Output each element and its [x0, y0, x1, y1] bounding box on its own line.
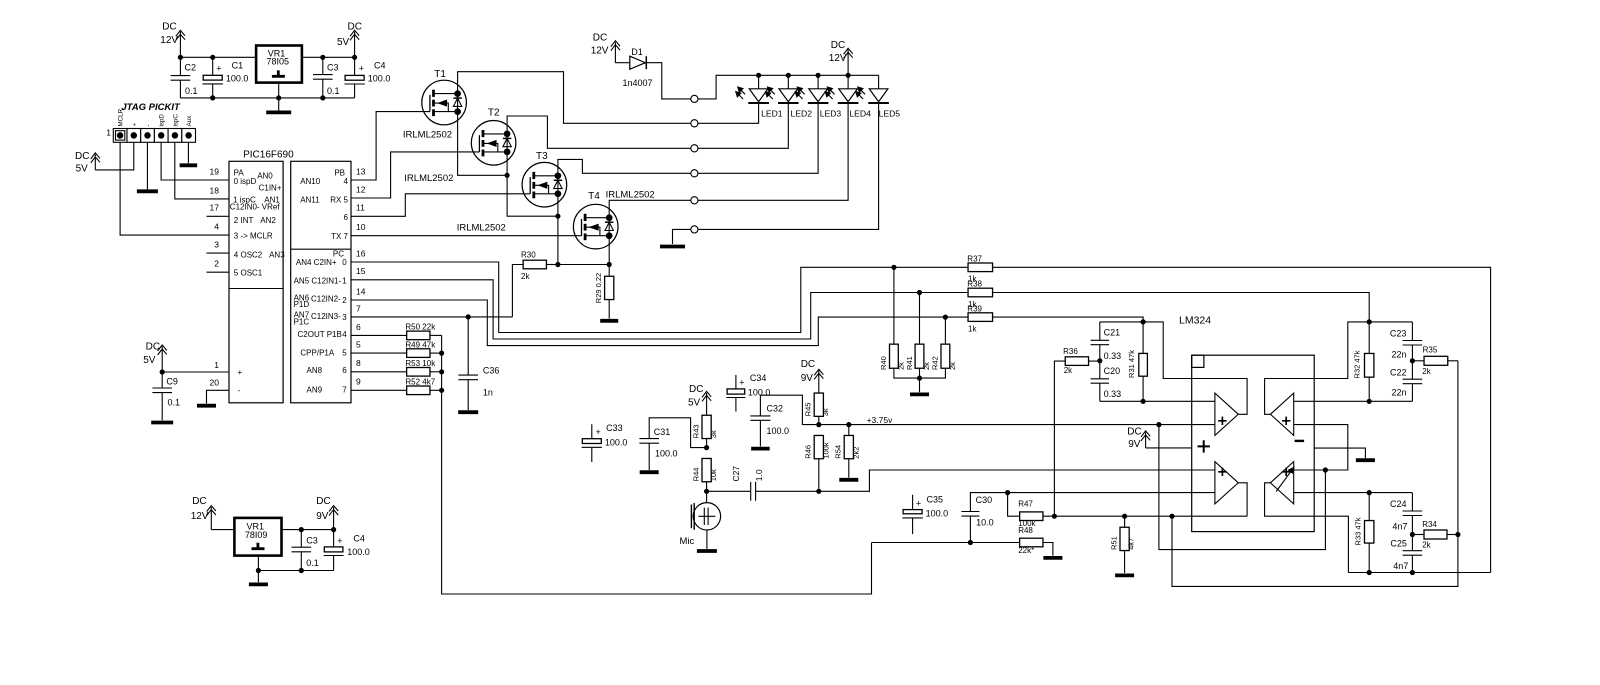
svg-text:17: 17 [210, 203, 220, 213]
wire opamp B input top [1294, 400, 1370, 402]
power symbol DC 9V mic arrow [814, 369, 823, 393]
wire DC5V to PIC pin1 [162, 371, 229, 373]
wire C35 bottom lead [912, 518, 914, 534]
wire C24 bottom lead [1411, 516, 1413, 535]
op-amp U2C triangle [1215, 462, 1238, 504]
wire R49 right lead [430, 352, 442, 354]
svg-text:C12IN2-: C12IN2- [311, 295, 341, 304]
resistor R48 22k [1020, 538, 1043, 547]
node C30 bottom junction [968, 540, 973, 545]
wire C23 bottom lead [1411, 345, 1413, 361]
wire LED5 anode lead [878, 75, 880, 89]
IC U1 right box divider [291, 248, 351, 250]
connector pad 2 [691, 120, 698, 127]
node C20 C21 junction [1097, 358, 1102, 363]
wire C27 to R46 node [756, 490, 819, 492]
power symbol DC 5V header arrow [91, 153, 100, 170]
svg-text:20: 20 [210, 378, 220, 388]
svg-text:1.0: 1.0 [754, 469, 764, 481]
svg-text:2 INT: 2 INT [234, 216, 254, 225]
resistor R46 100k [814, 435, 823, 458]
svg-text:2k: 2k [922, 362, 931, 370]
resistor R43 3k [702, 415, 711, 438]
node VR2 rail C3 [299, 568, 304, 573]
svg-text:9V: 9V [316, 511, 329, 522]
wire LED anode lead x848 [847, 75, 849, 89]
svg-text:+: + [216, 64, 221, 74]
resistor R37 1k [968, 263, 993, 272]
svg-text:R44: R44 [692, 468, 701, 482]
connector pad 3 [691, 145, 698, 152]
svg-text:18: 18 [210, 185, 220, 195]
svg-text:15: 15 [356, 266, 366, 276]
wire C24 top lead [1411, 493, 1413, 511]
ground below C9 [151, 421, 173, 425]
svg-text:R37: R37 [967, 255, 982, 264]
LED3 diode [795, 87, 828, 103]
wire pin7 row to R30 [351, 316, 512, 318]
svg-text:22n: 22n [1392, 350, 1407, 360]
node T4 source junction [607, 262, 612, 267]
op-amp U2D arrow [1276, 467, 1294, 491]
svg-text:5 OSC1: 5 OSC1 [234, 268, 263, 277]
ground pin20 [197, 404, 216, 408]
wire mic signal to opamp3 [819, 470, 1215, 491]
svg-text:100.0: 100.0 [767, 426, 790, 436]
wire D1 to pad1 [646, 63, 690, 99]
svg-text:0.1: 0.1 [327, 86, 340, 96]
wire R29 bottom lead [608, 300, 610, 319]
svg-text:LED4: LED4 [849, 109, 871, 119]
LED4 diode [825, 87, 858, 103]
svg-text:MCLR: MCLR [118, 108, 125, 126]
node output bus junction [1169, 514, 1174, 519]
transistor T1 IRLML2502 [422, 80, 467, 125]
svg-text:AN9: AN9 [307, 386, 323, 395]
svg-text:IRLML2502: IRLML2502 [403, 130, 452, 141]
wire R50 right lead [430, 334, 442, 336]
svg-text:R38: R38 [967, 280, 982, 289]
node bottom rail C25 [1410, 570, 1415, 575]
wire R35 left lead [1412, 360, 1424, 362]
wire R34 left lead [1412, 534, 1424, 536]
svg-text:5V: 5V [143, 355, 156, 366]
wire header ispC to PIC pin18 [175, 142, 229, 199]
wire C1 bottom lead [212, 84, 214, 98]
power symbol DC 9V opamp arrow [1141, 431, 1150, 448]
svg-text:R52 4k7: R52 4k7 [405, 378, 435, 387]
node R41 top junction [917, 290, 922, 295]
svg-text:IRLML2502: IRLML2502 [404, 173, 453, 184]
wire C36 bottom lead [467, 380, 469, 410]
wire C32 bottom lead [759, 421, 761, 447]
svg-text:0.33: 0.33 [1104, 351, 1122, 361]
svg-text:R51: R51 [1109, 536, 1118, 550]
wire LED5 cathode to pad6 [698, 103, 879, 229]
wire PIC pin2 stub [207, 271, 230, 273]
wire C4b bottom lead [333, 556, 335, 571]
svg-text:AN4 C2IN+: AN4 C2IN+ [296, 258, 337, 267]
svg-text:T2: T2 [488, 107, 500, 118]
svg-text:Aux: Aux [186, 115, 193, 127]
svg-text:P1C: P1C [294, 317, 310, 326]
LED1 diode [736, 87, 769, 103]
capacitor C30 [961, 512, 979, 517]
node LED rail junction x788 [786, 73, 791, 78]
resistor R42 2k [941, 344, 950, 368]
wire resistor rail to bottom bus [442, 335, 872, 594]
power symbol DC 12V supply 1 arrow [176, 30, 185, 57]
svg-text:1: 1 [106, 128, 111, 138]
svg-text:C12IN0- VRef: C12IN0- VRef [230, 202, 281, 211]
wire C4 top lead [354, 57, 356, 75]
wire C33 top lead [591, 424, 593, 439]
power symbol DC 5V pin1 arrow [158, 345, 167, 372]
svg-text:11: 11 [356, 203, 365, 213]
ground header minus [137, 189, 158, 193]
capacitor C1 [203, 75, 223, 84]
svg-text:LED3: LED3 [820, 109, 842, 119]
ground below R41 [910, 392, 929, 396]
wire bottom signal line4 [872, 542, 1020, 544]
svg-text:+: + [739, 378, 744, 388]
svg-text:6: 6 [356, 322, 361, 332]
capacitor C36 [458, 375, 478, 380]
capacitor C2 [171, 76, 191, 81]
svg-text:PIC16F690: PIC16F690 [243, 150, 294, 161]
node R43 R44 junction [704, 445, 709, 450]
wire R32 bottom lead [1368, 377, 1370, 401]
wire R48 right to ground [1043, 543, 1053, 556]
wire output rail R35 R34 [1172, 361, 1458, 587]
wire 3.75v wrap around [1159, 425, 1326, 550]
svg-text:2: 2 [342, 296, 347, 305]
svg-text:22k*: 22k* [1018, 546, 1034, 555]
svg-text:9: 9 [356, 377, 361, 387]
svg-text:0.1: 0.1 [185, 86, 198, 96]
wire opamp D input bottom [1294, 492, 1370, 494]
node mic junction [704, 489, 709, 494]
capacitor C32 [750, 416, 770, 420]
wire R47 left link [1008, 493, 1020, 517]
wire 3.75v reference line [819, 424, 1215, 426]
node rail R53 [439, 369, 444, 374]
svg-text:C4: C4 [353, 533, 365, 543]
resistor R29 0.22 [605, 276, 614, 299]
wire mic out to C27 [707, 490, 750, 492]
IC U1 PIC16F690 left box [229, 161, 283, 402]
node R36 bottom junction [1052, 514, 1057, 519]
svg-text:AN8: AN8 [307, 366, 323, 375]
node VR2 gnd rail [256, 568, 261, 573]
svg-text:78I05: 78I05 [267, 57, 290, 67]
node R45 R46 junction [816, 422, 821, 427]
node VR2 out C4 DC9V [331, 527, 336, 532]
node rail R52 [439, 388, 444, 393]
wire C21 top link [1100, 321, 1143, 323]
svg-text:5V: 5V [688, 398, 701, 409]
svg-text:+: + [596, 427, 601, 437]
node LED rail junction x848 [846, 73, 851, 78]
node bottom rail VR1 gnd [276, 95, 281, 100]
svg-text:0.33: 0.33 [1104, 389, 1122, 399]
svg-text:T4: T4 [588, 191, 600, 202]
node R51 top junction [1122, 514, 1127, 519]
node source rail junction [555, 214, 560, 219]
power symbol DC 12V vr2 arrow [207, 506, 216, 530]
node R31 top junction [1141, 319, 1146, 324]
diode D1 1n4007 [630, 56, 647, 69]
svg-text:R46: R46 [804, 445, 813, 459]
svg-text:R42: R42 [931, 356, 940, 370]
wire T1 drain to LED row2 [458, 72, 691, 124]
wire R33 top lead [1368, 493, 1370, 521]
wire LED anode lead x818 [817, 75, 819, 89]
svg-text:C1: C1 [232, 61, 244, 71]
connector pad 6 [691, 226, 698, 233]
svg-text:DC: DC [1127, 426, 1141, 437]
svg-text:6: 6 [344, 213, 349, 222]
node rail C4 DC5V [352, 55, 357, 60]
wire bottom rail right [1348, 572, 1490, 574]
label V+ big plus [1198, 440, 1210, 452]
wire pin5 to R49 [351, 352, 407, 354]
wire mic bottom lead [706, 530, 708, 549]
node T1-T2 source junction [505, 173, 510, 178]
svg-text:LED5: LED5 [879, 109, 901, 119]
svg-text:IRLML2502: IRLML2502 [606, 190, 655, 201]
svg-text:5V: 5V [76, 164, 89, 175]
svg-text:DC: DC [593, 32, 607, 43]
resistor R41 2k [915, 344, 924, 368]
wire R39 to R31 node [993, 317, 1144, 322]
wire R46 bottom lead [818, 459, 820, 491]
svg-text:9V: 9V [801, 373, 814, 384]
wire C3 bottom lead [322, 79, 324, 98]
wire C22 top lead [1411, 361, 1413, 379]
wire V+ supply [1146, 447, 1192, 449]
wire pad6 to ground [673, 229, 691, 244]
wire C32 link to R45 node [760, 395, 818, 424]
wire opamp A input top [1100, 400, 1215, 402]
capacitor C22 [1403, 379, 1423, 384]
wire R38 to node A [993, 293, 1370, 322]
wire LED2 cathode to pad3 [698, 103, 788, 148]
svg-text:2: 2 [214, 259, 219, 269]
wire R40 top lead [893, 267, 895, 344]
wire pin16 bus to R37 [351, 262, 968, 333]
resistor R52 4k7 [407, 386, 430, 395]
wire C33 bottom lead [591, 447, 593, 462]
svg-text:C27: C27 [731, 466, 741, 482]
wire R36 right lead [1089, 360, 1100, 362]
wire opamp3 lower input line [1008, 492, 1215, 494]
capacitor C4 top section [344, 75, 364, 84]
svg-text:1: 1 [214, 360, 219, 370]
wire LED1 cathode to pad2 [698, 103, 759, 123]
wire pin15 bus to R38 [351, 280, 968, 339]
svg-text:T1: T1 [434, 69, 446, 80]
svg-text:13: 13 [356, 166, 366, 176]
svg-text:5V: 5V [337, 37, 350, 48]
wire R37 long line [993, 267, 1491, 572]
wire R32 top lead [1368, 322, 1370, 354]
transistor T3 IRLML2502 [522, 162, 567, 207]
ground header Aux [180, 163, 198, 167]
connector JTAG PICKIT header [113, 129, 195, 143]
capacitor C3 top section [313, 75, 333, 80]
svg-text:DC: DC [192, 496, 206, 507]
node 3.75v line junction [1156, 422, 1161, 427]
wire C36 top lead [467, 317, 469, 375]
capacitor C9 [152, 388, 172, 393]
wire C34 bottom lead [735, 398, 737, 412]
node R34 rail junction [1455, 532, 1460, 537]
capacitor C20 [1091, 379, 1110, 383]
resistor R30 2k [523, 260, 546, 269]
LED5 diode [856, 87, 889, 103]
svg-text:C25: C25 [1390, 539, 1407, 549]
node bottom rail C3 [320, 95, 325, 100]
resistor R53 10k [407, 368, 430, 377]
wire VR1 ground lead [278, 83, 280, 111]
IC U1 left box divider [229, 288, 283, 290]
wire R52 right lead [430, 389, 442, 391]
wire top rail left [180, 56, 256, 58]
node C24 C25 junction [1410, 532, 1415, 537]
svg-text:DC: DC [831, 40, 845, 51]
wire C3b top lead [300, 530, 302, 548]
svg-text:C21: C21 [1104, 328, 1121, 338]
node VR2 out C3 [299, 527, 304, 532]
svg-text:R53 10k: R53 10k [405, 359, 436, 368]
capacitor C27 [751, 482, 756, 501]
svg-text:C1IN+: C1IN+ [259, 184, 282, 193]
svg-text:+: + [131, 123, 138, 127]
transistor T4 IRLML2502 [573, 204, 618, 249]
node rail R49 [439, 351, 444, 356]
resistor R45 3k [814, 393, 823, 416]
svg-text:R40: R40 [879, 356, 888, 370]
node LED rail junction x758 [756, 73, 761, 78]
node C22 C23 junction [1410, 358, 1415, 363]
svg-text:1k: 1k [968, 325, 977, 334]
node bottom rail C1 [210, 95, 215, 100]
wire R30 left lead [512, 265, 523, 317]
svg-text:C24: C24 [1390, 499, 1407, 509]
svg-text:8: 8 [356, 358, 361, 368]
wire PIC pin20 to ground [207, 390, 230, 403]
wire node A to C23 [1369, 321, 1412, 323]
svg-text:R49 47k: R49 47k [405, 340, 436, 349]
resistor R31 47k [1139, 353, 1148, 376]
resistor R39 1k [968, 313, 993, 322]
node R42 top junction [943, 315, 948, 320]
wire opamp B output [1265, 322, 1370, 414]
svg-text:100.0: 100.0 [368, 74, 391, 84]
svg-text:100k: 100k [822, 442, 831, 459]
svg-text:C30: C30 [976, 495, 993, 505]
wire R53 right lead [430, 371, 442, 373]
resistor R36 2k [1065, 357, 1088, 366]
svg-text:R33 47k: R33 47k [1353, 517, 1362, 545]
IC U2 LM324 notch [1192, 355, 1204, 367]
wire T3 source rail [557, 194, 559, 265]
wire R51 top lead [1124, 516, 1126, 527]
node R30 right junction [555, 262, 560, 267]
wire R36 vertical link [1054, 361, 1065, 516]
ground below VR1 [266, 111, 291, 115]
resistor R50 22k [407, 331, 430, 340]
power symbol DC 12V D1 arrow [611, 41, 620, 63]
resistor R51 4k7 [1120, 527, 1129, 550]
ground V- [1356, 458, 1375, 462]
LED2 diode [766, 87, 799, 103]
node C36 junction [466, 314, 471, 319]
capacitor C24 [1403, 511, 1423, 516]
wire opamp A output feedback [1143, 322, 1247, 414]
wire C3 top lead [322, 57, 324, 74]
svg-text:C3: C3 [306, 536, 318, 546]
node B junction [1367, 399, 1372, 404]
svg-text:+3.75v: +3.75v [867, 415, 894, 425]
svg-text:78I09: 78I09 [245, 530, 268, 540]
svg-text:RX 5: RX 5 [330, 195, 348, 204]
svg-text:7: 7 [342, 386, 347, 395]
wire T1 source down [458, 112, 508, 176]
svg-text:D1: D1 [631, 47, 643, 57]
capacitor C35 [902, 510, 922, 518]
svg-text:DC: DC [801, 359, 815, 370]
svg-text:100.0: 100.0 [347, 547, 370, 557]
svg-text:10: 10 [356, 222, 366, 232]
wire C20 top lead [1099, 361, 1101, 379]
wire R40-R42 bottom rail [894, 368, 946, 378]
wire header Aux to ground [187, 142, 189, 163]
svg-text:100.0: 100.0 [748, 387, 771, 397]
svg-text:C34: C34 [750, 373, 767, 383]
svg-text:100.0: 100.0 [655, 449, 678, 459]
connector pad 5 [691, 197, 698, 204]
svg-text:C33: C33 [606, 423, 623, 433]
svg-text:6: 6 [342, 366, 347, 375]
svg-text:0.1: 0.1 [306, 558, 319, 568]
wire PIC pin12 to T2 gate [351, 152, 479, 198]
wire node C to C24 [1369, 492, 1412, 494]
wire R42 top lead [944, 317, 946, 344]
svg-text:3k: 3k [709, 430, 718, 438]
wire V- to ground [1314, 448, 1365, 458]
wire C34 top lead [735, 375, 737, 389]
wire LED3 cathode to pad4 [698, 103, 818, 173]
svg-text:C35: C35 [927, 495, 944, 505]
wire VR2 ground lead [257, 556, 259, 583]
wire C31 bottom lead [648, 443, 650, 470]
svg-text:4 OSC2: 4 OSC2 [234, 250, 263, 259]
wire C35 top lead [912, 495, 914, 510]
svg-text:4: 4 [343, 177, 348, 186]
resistor R49 47k [407, 349, 430, 358]
wire opamp C output line3 [1238, 483, 1247, 516]
svg-text:10.0: 10.0 [976, 517, 994, 527]
svg-text:2k: 2k [1422, 541, 1431, 550]
power symbol DC 9V vr2 arrow [329, 506, 338, 530]
capacitor C3 lower section [292, 547, 312, 552]
wire header ispD to PIC pin19 [161, 142, 229, 180]
svg-text:0: 0 [342, 258, 347, 267]
IC U2 LM324 box [1192, 355, 1315, 531]
resistor R35 2k [1424, 356, 1448, 365]
